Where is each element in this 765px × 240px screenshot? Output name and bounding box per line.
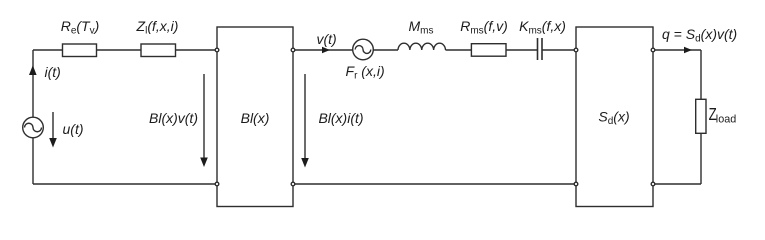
svg-text:v(t): v(t) (317, 31, 337, 47)
svg-text:Zl(f,x,i): Zl(f,x,i) (136, 18, 179, 37)
svg-text:Rms(f,v): Rms(f,v) (460, 18, 508, 37)
svg-text:Bl(x): Bl(x) (241, 110, 270, 126)
svg-text:Bl(x)i(t): Bl(x)i(t) (318, 110, 363, 126)
svg-text:load: load (716, 113, 736, 125)
svg-text:Kms(f,x): Kms(f,x) (519, 18, 566, 37)
svg-text:Fr (x,i): Fr (x,i) (346, 63, 385, 82)
svg-text:i(t): i(t) (45, 64, 61, 80)
svg-text:Bl(x)v(t): Bl(x)v(t) (149, 110, 198, 126)
svg-text:Sd(x): Sd(x) (598, 109, 629, 128)
svg-text:u(t): u(t) (63, 121, 84, 137)
